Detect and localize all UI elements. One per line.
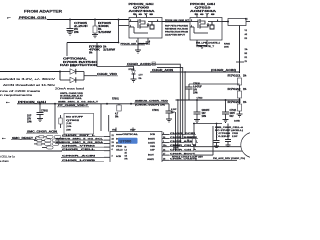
wire fan feed E: [175, 112, 177, 151]
wire jog stub: [236, 61, 244, 63]
resistor R7012 block: [173, 145, 180, 150]
right pin row CHGR_DCIN: [162, 133, 196, 135]
node fan C junction: [184, 71, 186, 73]
transistor Q7005 package box: [129, 18, 162, 39]
svg-text:1%: 1%: [243, 102, 246, 104]
svg-text:R7001: R7001: [112, 99, 119, 101]
no-stuff box Q7002: [64, 113, 94, 134]
right pin row CHGR_BGATE: [162, 136, 198, 139]
net label SMBUS_CHGR_VDD: [135, 101, 169, 103]
wire bracket R7080: [67, 43, 119, 67]
svg-text:5%: 5%: [139, 78, 142, 80]
wire gate feed to Q7005: [119, 20, 130, 43]
title FROM ADAPTER: [24, 10, 62, 14]
svg-text:( 10%: ( 10%: [66, 126, 71, 128]
label D7005: [70, 66, 77, 68]
svg-text:( 1.5K: ( 1.5K: [66, 123, 72, 125]
capacitor C7021: [222, 100, 237, 120]
IC U7000 inside top text: [112, 129, 156, 160]
wire boot top rail: [193, 123, 228, 141]
svg-text:AON7403A: AON7403A: [190, 10, 217, 13]
note bottom right: [213, 157, 245, 160]
svg-text:n requirements: n requirements: [0, 93, 33, 97]
svg-text:NO STUFF (4CELL): NO STUFF (4CELL): [215, 129, 243, 132]
right pin row CHGR_AGATE: [162, 140, 198, 143]
ground below C7005: [67, 32, 73, 35]
capacitor C7025: [225, 133, 239, 146]
svg-text:e charg: e charg: [0, 159, 9, 162]
svg-text:SMB_SMC_5_G3_SDA-T: SMB_SMC_5_G3_SDA-T: [58, 101, 99, 104]
node junction C7005: [69, 19, 71, 21]
capacitor C7005: [67, 20, 90, 35]
left pin row CHGR_RST_L: [62, 135, 115, 137]
port oval 4: [42, 146, 53, 149]
svg-text:5%: 5%: [115, 117, 118, 119]
svg-text:20mA max load: 20mA max load: [55, 87, 85, 91]
svg-text:R7023: R7023: [228, 102, 242, 104]
svg-text:1000PF: 1000PF: [202, 110, 211, 112]
svg-text:10%: 10%: [202, 116, 207, 118]
svg-text:C7001: C7001: [152, 110, 159, 112]
svg-text:10%: 10%: [193, 92, 198, 94]
port oval 3b: [52, 142, 59, 145]
node junction c7022: [196, 99, 198, 101]
svg-text:5%: 5%: [89, 52, 92, 54]
left pin row SMBUS SDA: [55, 141, 115, 144]
wire vdd to c7001: [131, 103, 169, 105]
svg-text:C7021: C7021: [230, 110, 237, 112]
svg-text:BGATE: BGATE: [148, 138, 156, 141]
svg-text:R7022: R7022: [228, 89, 242, 91]
svg-text:10%: 10%: [27, 121, 32, 123]
svg-text:0.1UF: 0.1UF: [171, 109, 177, 111]
svg-text:1%: 1%: [103, 46, 106, 48]
svg-text:C7020: C7020: [193, 83, 200, 85]
svg-text:5%: 5%: [98, 29, 101, 31]
node fan D junction: [177, 99, 179, 101]
note until chgr vdd: [60, 93, 84, 100]
ground below C7022: [194, 120, 200, 123]
net flag SMC_RESET_L: [2, 138, 38, 140]
wire fan feed D: [177, 100, 179, 147]
transistor Q7030 circle: [241, 132, 266, 157]
svg-text:( C7024: ( C7024: [216, 132, 232, 135]
capacitor C7001: [152, 104, 177, 119]
svg-text:NO STUFF: NO STUFF: [66, 117, 84, 119]
note optional diode: [60, 58, 98, 67]
capacitor C7022: [194, 98, 211, 120]
wire acin risers: [151, 64, 186, 151]
wire Q7010 output to fuse: [222, 21, 228, 23]
svg-text:CSIP: CSIP: [150, 150, 155, 152]
node gate net junction: [118, 42, 120, 44]
node acin junction: [0, 0, 1, 1]
wire vdd drop to IC: [100, 104, 102, 131]
resistor R7021: [228, 75, 247, 91]
wire vddp drop to IC: [108, 115, 110, 132]
svg-text:PPDCIN_G3H: PPDCIN_G3H: [190, 4, 216, 6]
svg-text:VDD: VDD: [112, 129, 117, 131]
resistor R7002 left of box: [59, 115, 62, 128]
wire vdd rail: [17, 103, 131, 105]
wire between Q7005 and Q7010: [162, 21, 190, 23]
capacitor C7020: [186, 83, 240, 100]
wire Q7005 gate network down: [137, 44, 139, 51]
svg-text:( DNI: ( DNI: [66, 129, 71, 131]
wire CHGR_ACIN horizontal: [150, 72, 240, 73]
wire fan feed C from ACIN: [184, 72, 186, 135]
svg-text:C7002: C7002: [41, 110, 48, 112]
net label PPDCIN_G3H_CHGR gate: [121, 41, 150, 45]
port oval 1: [47, 135, 54, 138]
svg-text:PM_LPB_DGATE-1: PM_LPB_DGATE-1: [196, 42, 221, 45]
IC U7000 top stubs: [116, 128, 133, 132]
svg-text:C7005: C7005: [74, 23, 88, 25]
svg-text:R7080: R7080: [89, 46, 103, 48]
right pin row CHGR_CSI_P: [162, 149, 243, 151]
svg-text:t CELL for 1s: t CELL for 1s: [0, 154, 15, 158]
note RVP fets: [165, 26, 189, 37]
svg-text:R7085: R7085: [224, 44, 231, 46]
svg-text:VTRIG: VTRIG: [116, 146, 123, 148]
note text acin threshold: [0, 77, 56, 97]
svg-text:nce of <200 meets: nce of <200 meets: [0, 89, 41, 93]
net label SMC_CHGR_ACIN: [26, 130, 58, 133]
net label CHGR_ACIN1: [127, 62, 156, 66]
svg-text:C7025: C7025: [232, 133, 239, 135]
wire main input rail: [47, 19, 129, 21]
svg-text:(CHGR_VDDP) 1%: (CHGR_VDDP) 1%: [135, 105, 165, 107]
note box bottom left: [0, 151, 62, 163]
svg-text:1%: 1%: [243, 89, 246, 91]
transistor Q7005 bottom pins: [136, 38, 151, 44]
svg-text:100K: 100K: [98, 26, 110, 28]
svg-text:D7005: D7005: [70, 66, 77, 68]
node junction c7021: [225, 99, 227, 101]
transistor Q7010 mosfet symbol: [190, 19, 222, 33]
resistor R7001: [112, 99, 121, 119]
svg-text:4.7V: 4.7V: [139, 74, 144, 77]
wire diode branch vertical: [59, 72, 61, 81]
svg-text:SMB_CHGR_CELL-A: SMB_CHGR_CELL-A: [215, 126, 244, 129]
node divider junction: [239, 99, 241, 101]
wire fan feed B: [157, 68, 183, 139]
svg-text:2.2UF: 2.2UF: [74, 26, 89, 28]
net label CHGR_VDD: [97, 74, 119, 76]
svg-text:VDDP: VDDP: [130, 129, 136, 131]
svg-text:PROTECTION FROM: PROTECTION FROM: [165, 32, 188, 34]
svg-text:1UF: 1UF: [27, 115, 32, 117]
svg-text:470K: 470K: [89, 48, 101, 51]
svg-text:ADAPTER INPUT: ADAPTER INPUT: [165, 34, 186, 37]
transistor Q7005 top pin stubs: [137, 15, 147, 18]
net label PPDCIN_G3H_CHGR_RVP_SCT: [165, 20, 190, 22]
svg-text:DCIN: DCIN: [150, 134, 155, 136]
wire c7002 down: [54, 104, 56, 130]
net label row over wire: [58, 101, 99, 104]
right pin row CHGR_BOOT: [162, 153, 213, 158]
ground below C7001: [166, 119, 172, 122]
svg-text:PM_AUX_DRV (CHGR_PH): PM_AUX_DRV (CHGR_PH): [213, 157, 245, 160]
node junction end: [130, 103, 132, 105]
ground below Q7005: [135, 50, 141, 53]
svg-text:50V: 50V: [230, 116, 235, 118]
svg-text:eshold is 3.2V, +/- 30mV: eshold is 3.2V, +/- 30mV: [0, 77, 56, 81]
port oval 2: [45, 139, 52, 142]
node junction R7005: [94, 19, 96, 21]
svg-text:1%: 1%: [245, 49, 248, 51]
svg-text:2.2UF: 2.2UF: [232, 136, 238, 138]
node junction gate drop: [118, 19, 120, 21]
fuse F7040: [228, 19, 250, 26]
svg-text:C7022: C7022: [197, 98, 204, 100]
wire diode branch top: [60, 71, 70, 73]
svg-text:25V: 25V: [74, 29, 79, 31]
wire right rail down: [239, 26, 241, 74]
svg-text:BOOT: BOOT: [148, 154, 155, 156]
net label CHGR_VDDP: [135, 105, 165, 107]
ground below C7021: [223, 120, 229, 123]
right pin row CHGR_CSI_N: [162, 145, 241, 147]
svg-text:16V: 16V: [193, 89, 198, 91]
svg-text:AON7403A: AON7403A: [129, 10, 156, 13]
resistor R7015: [34, 139, 45, 141]
port oval 1b: [54, 135, 61, 138]
node sense junction: [59, 71, 61, 73]
svg-text:(CHGR_ACIN): (CHGR_ACIN): [211, 69, 236, 72]
svg-text:PPDCIN_G3H: PPDCIN_G3H: [129, 4, 155, 6]
svg-text:10PF: 10PF: [230, 113, 236, 115]
svg-text:25V: 25V: [27, 118, 32, 120]
svg-text:5 6 7 8: 5 6 7 8: [195, 14, 218, 16]
resistor R7005: [93, 20, 113, 35]
svg-text:D7005 BAT54C: D7005 BAT54C: [63, 61, 98, 64]
svg-text:U7000: U7000: [120, 139, 133, 144]
diode D7005B: [70, 77, 84, 82]
left pin row partial: [61, 160, 104, 162]
right edge small labels: [245, 19, 249, 64]
svg-text:CSIN: CSIN: [150, 146, 155, 148]
diode D7006 zener: [129, 66, 144, 80]
resistor R7025: [187, 137, 196, 150]
left pin row SMBUS SCL: [55, 138, 115, 140]
svg-text:10 5%: 10 5%: [173, 147, 179, 149]
ground below R7005: [92, 35, 98, 38]
ground below C7002: [37, 119, 43, 122]
net label row two: [57, 105, 89, 107]
svg-text:ACIN threshold at 11.50v: ACIN threshold at 11.50v: [3, 83, 56, 87]
net label CHGR_ACIN 2: [211, 69, 236, 72]
svg-text:Q7010: Q7010: [195, 7, 213, 9]
diode D7005A: [70, 69, 84, 74]
wire fan feed A: [151, 64, 180, 142]
svg-text:R7021: R7021: [228, 75, 242, 77]
transistor Q7010 top pin stubs: [197, 15, 207, 18]
IC U7000 refdes blue: [118, 138, 138, 144]
svg-text:RAD PROTECTION: RAD PROTECTION: [60, 64, 98, 67]
svg-text:1/16W: 1/16W: [98, 32, 113, 34]
svg-text:1/16W: 1/16W: [103, 49, 116, 51]
svg-text:1%: 1%: [243, 75, 246, 77]
svg-text:20%: 20%: [74, 32, 79, 34]
svg-text:mmCRITICAL: mmCRITICAL: [116, 133, 139, 136]
svg-text:REVERSE VOLTAGE: REVERSE VOLTAGE: [165, 28, 189, 31]
transistor Q7010 bottom pins: [197, 40, 207, 49]
wire acin filter rail: [176, 99, 240, 101]
wire diode output join: [84, 72, 97, 81]
svg-text:RVP FETS PROVIDE: RVP FETS PROVIDE: [165, 26, 189, 28]
IC U7000 part number column: [125, 147, 128, 161]
wire boot riser: [212, 126, 214, 155]
left pin row CHGR_ACIN: [61, 155, 114, 158]
node junction r7001: [106, 103, 108, 105]
resistor R7014: [36, 136, 47, 138]
left pin row CHGR_VTRIG: [61, 144, 115, 147]
port oval 3: [45, 142, 52, 145]
capacitor C7024: [214, 126, 244, 147]
svg-text:( 0.22UF: ( 0.22UF: [216, 136, 231, 138]
note 20mA max load: [55, 87, 85, 91]
ground below D7006: [131, 79, 137, 82]
net flag PPDCIN_G3H: [7, 17, 47, 19]
transistor Q7005 label: [129, 4, 156, 16]
svg-text:16V: 16V: [202, 113, 207, 115]
svg-text:TDM_GATE_T: TDM_GATE_T: [196, 45, 215, 48]
svg-text:OPTIONAL: OPTIONAL: [63, 58, 88, 61]
svg-text:UGATE: UGATE: [147, 158, 155, 161]
wire adapter sense left: [0, 71, 60, 73]
port oval 2b: [52, 139, 59, 142]
svg-text:AGND: AGND: [234, 120, 240, 123]
node output junction: [227, 21, 229, 23]
wire acin1 horizontal: [97, 66, 134, 68]
transistor Q7005 mosfet symbol: [129, 19, 162, 33]
transistor Q7010 label: [190, 4, 217, 16]
right pin row CHGR_UGATE: [162, 158, 237, 161]
svg-text:Q7005: Q7005: [133, 7, 151, 9]
node junction c7002: [54, 103, 56, 105]
resistor R7022: [228, 89, 247, 104]
svg-text:AGATE: AGATE: [148, 141, 156, 144]
svg-text:R7005: R7005: [98, 23, 112, 25]
IC U7000 box: [110, 132, 162, 163]
svg-text:0.047UF: 0.047UF: [193, 85, 202, 88]
svg-text:100K: 100K: [224, 47, 229, 49]
svg-text:CELLS: CELLS: [116, 150, 123, 152]
svg-text:Q7002: Q7002: [66, 120, 81, 122]
capacitor C7002: [27, 103, 48, 124]
svg-text:FROM ADAPTER: FROM ADAPTER: [24, 10, 62, 14]
wire diode branch bottom: [60, 79, 70, 81]
net label CHGR_ACIN: [151, 69, 174, 72]
note below Q7010: [196, 42, 231, 49]
svg-text:POWERUP RAIL: POWERUP RAIL: [60, 97, 83, 100]
ground below R7023: [234, 114, 243, 123]
resistor R7023: [228, 102, 247, 114]
resistor R7080: [89, 46, 116, 54]
left pin row CHGR_CELL: [61, 148, 114, 151]
resistor R7016: [34, 143, 45, 145]
net flag PPDCIN_G3H lower: [6, 102, 47, 104]
svg-text:ACIN: ACIN: [116, 155, 121, 158]
transistor Q7010 package box: [190, 18, 222, 41]
